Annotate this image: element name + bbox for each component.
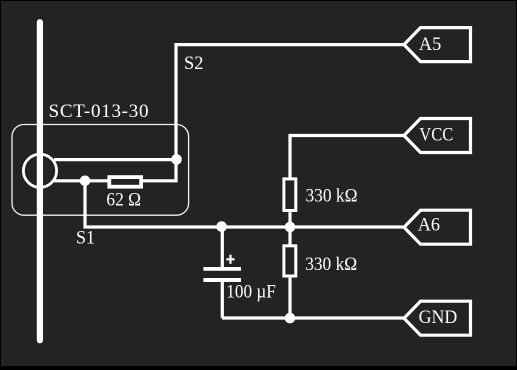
- svg-text:S1: S1: [76, 228, 95, 249]
- svg-text:330 kΩ: 330 kΩ: [305, 254, 357, 275]
- svg-text:330 kΩ: 330 kΩ: [306, 186, 358, 207]
- svg-text:SCT-013-30: SCT-013-30: [49, 101, 149, 122]
- svg-text:100 µF: 100 µF: [226, 281, 275, 302]
- svg-text:62 Ω: 62 Ω: [106, 190, 141, 211]
- svg-text:S2: S2: [184, 53, 203, 74]
- svg-text:GND: GND: [419, 307, 458, 328]
- svg-text:A5: A5: [419, 34, 441, 55]
- svg-text:A6: A6: [418, 215, 440, 236]
- svg-text:VCC: VCC: [419, 124, 453, 145]
